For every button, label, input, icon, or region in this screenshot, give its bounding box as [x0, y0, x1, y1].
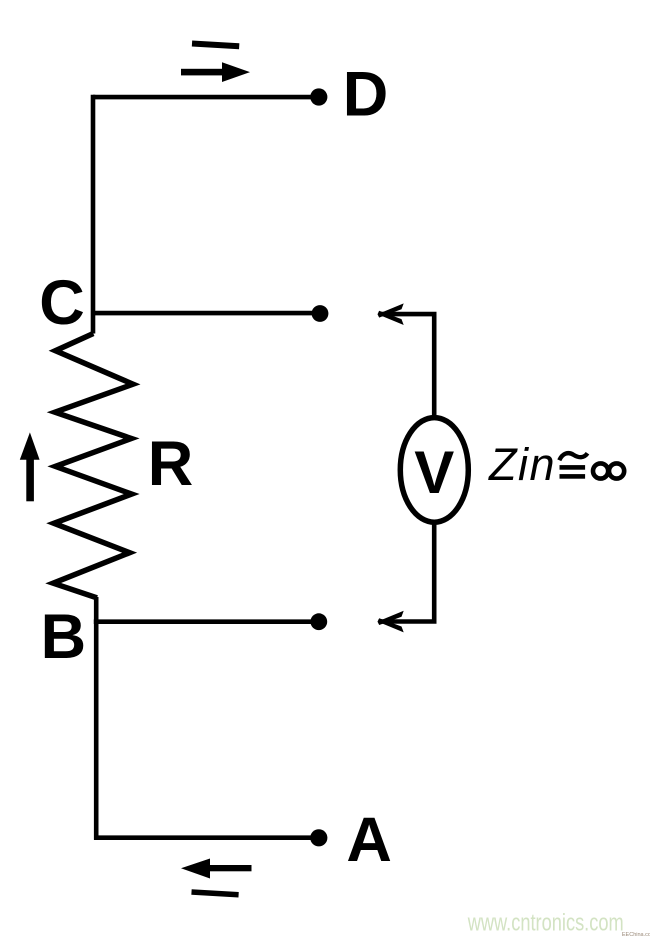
voltmeter U1 ellipse	[400, 418, 468, 523]
svg-text:V: V	[414, 439, 454, 506]
svg-text:Zin: Zin	[488, 439, 556, 490]
resistor R zigzag	[53, 334, 133, 598]
node D dot	[310, 88, 327, 105]
infinity symbol	[593, 463, 624, 478]
node A dot	[310, 829, 327, 846]
wire: left vertical from resistor bottom down to A wire	[94, 597, 99, 840]
current label I (top slanted bar)	[192, 44, 239, 47]
current arrow (top, pointing right)	[181, 62, 250, 82]
svg-text:D: D	[343, 60, 389, 130]
svg-text:C: C	[39, 268, 84, 338]
congruent symbol (tilde over equals)	[559, 453, 587, 479]
voltmeter bottom lead wire	[379, 522, 435, 622]
wire: node B horizontal	[94, 619, 318, 624]
node B dot	[310, 613, 327, 630]
wire: node C horizontal	[93, 311, 318, 316]
svg-text:EEChina.com: EEChina.com	[622, 932, 650, 938]
svg-text:R: R	[148, 429, 194, 499]
svg-text:www.cntronics.com: www.cntronics.com	[467, 910, 624, 937]
voltmeter top lead arrowhead	[378, 303, 404, 317]
svg-text:B: B	[41, 602, 87, 672]
voltmeter top lead wire	[379, 314, 435, 418]
voltmeter bottom lead arrowhead	[378, 611, 404, 625]
wire: left vertical from D wire down to C	[91, 95, 96, 334]
up arrow (left of resistor)	[20, 432, 40, 501]
node C dot	[312, 305, 329, 322]
wire: bottom horizontal to node A	[94, 835, 318, 840]
current label I (bottom slanted bar)	[192, 892, 239, 895]
svg-text:A: A	[346, 805, 392, 875]
wire: top horizontal to node D	[93, 95, 317, 100]
current arrow (bottom, pointing left)	[181, 859, 252, 879]
